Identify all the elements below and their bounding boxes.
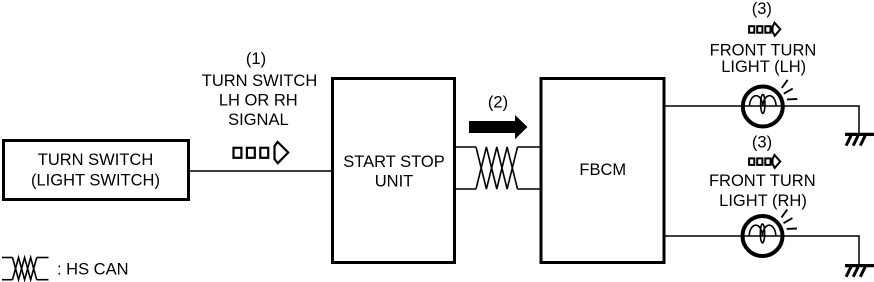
- icon: signal squares and arrow (1): [234, 142, 289, 163]
- svg-text:LIGHT (RH): LIGHT (RH): [719, 192, 807, 210]
- svg-text:TURN SWITCH: TURN SWITCH: [38, 151, 153, 169]
- ground: top right: [845, 134, 874, 145]
- wire: turn switch to start stop unit: [190, 170, 332, 172]
- legend: HS CAN twisted pair symbol: [2, 258, 49, 280]
- black arrow (2): [469, 115, 528, 139]
- svg-text:SIGNAL: SIGNAL: [228, 111, 289, 129]
- label (3) FRONT TURN LIGHT (LH): [710, 0, 817, 76]
- svg-text:(1): (1): [246, 50, 266, 68]
- box: START STOP UNIT: [333, 79, 455, 263]
- svg-text:LIGHT (LH): LIGHT (LH): [721, 58, 806, 76]
- svg-text:(2): (2): [488, 94, 508, 112]
- svg-text:: HS CAN: : HS CAN: [57, 261, 129, 279]
- ground: bottom right: [845, 266, 874, 277]
- wire: FBCM to front turn light RH and to ground: [664, 236, 859, 264]
- lamp: front turn light RH: [743, 209, 797, 256]
- label (3) FRONT TURN LIGHT (RH): [709, 134, 816, 211]
- svg-text:TURN SWITCH: TURN SWITCH: [202, 72, 317, 90]
- svg-text:UNIT: UNIT: [375, 173, 414, 191]
- label (1) TURN SWITCH LH OR RH SIGNAL: [202, 50, 317, 129]
- HS CAN twisted pair between START STOP UNIT and FBCM: [456, 147, 540, 189]
- wire: FBCM to front turn light LH and to ground: [664, 106, 859, 133]
- icon: signal squares and arrow (3) bottom: [749, 155, 780, 168]
- svg-text:FRONT TURN: FRONT TURN: [709, 172, 816, 190]
- lamp: front turn light LH: [743, 80, 797, 127]
- box: FBCM: [541, 79, 664, 263]
- box: TURN SWITCH (LIGHT SWITCH): [4, 141, 189, 200]
- svg-text:(LIGHT SWITCH): (LIGHT SWITCH): [31, 172, 160, 190]
- icon: signal squares and arrow (3) top: [749, 23, 780, 36]
- svg-text:(3): (3): [752, 134, 772, 152]
- svg-text:START STOP: START STOP: [343, 153, 444, 171]
- svg-text:FBCM: FBCM: [579, 161, 626, 179]
- svg-text:(3): (3): [752, 0, 772, 18]
- svg-text:FRONT TURN: FRONT TURN: [710, 41, 817, 59]
- svg-text:LH OR RH: LH OR RH: [219, 92, 298, 110]
